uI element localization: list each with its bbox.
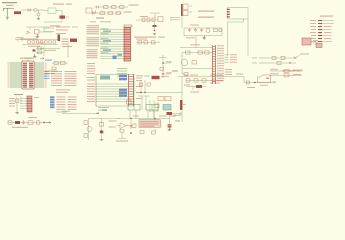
resistor R14 <box>205 51 210 54</box>
wire <box>36 46 44 56</box>
ground <box>203 36 207 40</box>
label blue <box>45 60 52 61</box>
transistor circuit: wire vertical <box>88 119 90 141</box>
part dark blob <box>152 76 160 79</box>
wire row <box>52 62 68 64</box>
wire right of blob <box>172 113 180 115</box>
wires down from boxes <box>130 110 154 119</box>
green net label row 2 <box>98 109 107 111</box>
resistor R19 <box>84 134 87 138</box>
wire net 1 <box>266 55 300 58</box>
resistor R6 <box>152 18 155 22</box>
connector J4 outline <box>228 8 249 20</box>
diode D6 <box>153 25 157 27</box>
transistor Q2 <box>206 29 210 33</box>
resistor R4 <box>108 12 113 15</box>
resistor R12 <box>186 51 191 54</box>
junction dots on rail <box>130 118 131 119</box>
resistor R22 <box>140 131 144 134</box>
resistor R21 <box>132 124 136 127</box>
tiny label above <box>236 74 243 75</box>
pin wires left <box>20 99 27 109</box>
IC pad column right <box>29 62 33 87</box>
resistor R15 <box>16 99 19 102</box>
ground GND1 <box>6 17 9 19</box>
label net3 left <box>270 69 278 70</box>
wire top rail <box>184 27 222 29</box>
junction dots <box>140 92 141 93</box>
part box 2 <box>28 121 33 124</box>
label red 2 <box>66 4 72 5</box>
box outline raised <box>258 75 271 83</box>
cap labels above <box>16 37 24 38</box>
junction dot <box>154 30 156 32</box>
net flag row 1 <box>252 57 266 60</box>
wire net <box>44 11 62 23</box>
ground right <box>168 128 172 131</box>
resistor R26 <box>277 61 281 64</box>
wire L path outer <box>228 19 249 56</box>
U4 body edge <box>213 45 216 84</box>
wire reg out <box>39 27 52 32</box>
capacitor C5c <box>53 41 56 44</box>
part box 1 <box>8 121 12 124</box>
wire to box <box>65 16 69 18</box>
label chain1 <box>129 5 139 6</box>
wire bottom rail <box>184 28 222 36</box>
net flag right 2 <box>172 19 180 21</box>
dark tick bottom left <box>266 78 269 79</box>
U1 body hatched <box>124 28 131 62</box>
right pin rows green <box>34 63 44 87</box>
wire rail 1 <box>180 47 212 49</box>
label under rail <box>44 50 56 51</box>
label rows right <box>109 121 117 128</box>
part dark blob right <box>167 112 173 115</box>
label below red <box>12 127 28 128</box>
wire vertical <box>67 43 69 59</box>
connector J3 box 1 <box>183 4 188 9</box>
junction dot <box>43 122 45 124</box>
wire from caps down <box>195 36 197 48</box>
IC pad column left <box>23 62 27 87</box>
green label <box>144 76 150 77</box>
wires vertical <box>141 80 145 93</box>
long red label row <box>134 37 156 38</box>
wire rail 3 <box>182 53 212 69</box>
resistor R20 red <box>15 121 20 124</box>
part marks <box>37 121 40 124</box>
transistor Q4 <box>87 127 92 132</box>
label small <box>190 25 199 26</box>
label above <box>28 117 37 118</box>
title text top-left <box>2 2 17 3</box>
label below red1 <box>90 21 96 22</box>
wire rail y27 <box>26 27 50 30</box>
part dark <box>100 131 104 134</box>
pin labels gap rows <box>87 63 95 74</box>
teal mark near body <box>118 54 123 57</box>
resistor R18 <box>84 121 87 125</box>
capacitor C5 <box>45 41 48 44</box>
wire net 2 <box>266 62 296 64</box>
label rows bottom <box>45 71 57 72</box>
ground <box>33 54 37 58</box>
module box <box>302 38 311 45</box>
wire row 3 <box>186 86 206 88</box>
wire down <box>154 22 156 30</box>
small marks below opamp <box>120 130 124 133</box>
teal blobs top <box>100 76 110 80</box>
label chain2 <box>124 12 132 13</box>
transistor Q1 <box>37 13 40 16</box>
wires vertical low <box>138 96 150 110</box>
resistor R28 <box>284 74 289 77</box>
capacitor C7 <box>147 18 150 22</box>
small parts below <box>52 67 56 70</box>
blue pin boxes top <box>119 75 127 81</box>
resistor R24 <box>272 56 276 59</box>
IC body outline <box>22 61 34 89</box>
capacitor C12 <box>38 51 42 54</box>
wire stubs lower <box>44 28 54 32</box>
resistor R11 <box>160 67 164 70</box>
junction dot <box>162 62 164 64</box>
U1 pin labels block 2 <box>87 37 100 46</box>
label VIN red <box>6 5 14 6</box>
junction dot q <box>289 62 290 63</box>
label top <box>320 16 333 17</box>
diode D5 <box>93 10 96 14</box>
ladder wires <box>149 100 159 119</box>
green label right <box>34 97 39 98</box>
top stub wire <box>24 59 32 62</box>
capacitor C5b <box>49 41 52 44</box>
labels above rail <box>133 116 176 117</box>
label below <box>190 92 199 93</box>
diode D2 <box>27 31 30 34</box>
branch label 2 <box>166 72 172 73</box>
label bottom left <box>116 141 128 142</box>
resistor R2 <box>112 6 117 9</box>
diode D7 <box>196 85 202 88</box>
pin labels left <box>310 20 316 42</box>
U1 pin labels block 1 <box>87 25 100 34</box>
part red blob <box>70 39 77 43</box>
label left low <box>247 87 255 88</box>
resistor R27 <box>284 69 289 72</box>
resistor R8 <box>54 62 59 65</box>
wire input left vertical <box>4 8 15 17</box>
wire top stub <box>150 13 160 18</box>
wire lower rail <box>40 47 60 49</box>
resistor R13 <box>198 51 203 54</box>
wire chain2 <box>92 12 122 14</box>
ground T <box>16 113 19 114</box>
fuse F1 <box>14 11 21 14</box>
capacitor C11 <box>38 47 42 50</box>
net flag top right <box>40 58 44 60</box>
red label rows mid <box>56 89 70 93</box>
U4 pin labels right <box>217 45 224 81</box>
ground GND2 <box>37 19 40 20</box>
end cross <box>274 81 276 83</box>
blue mark near body <box>113 56 117 60</box>
tiny label <box>175 120 180 123</box>
green label <box>158 37 165 38</box>
capacitor C14 <box>144 41 148 44</box>
resistor R25 <box>281 56 285 59</box>
wire drop from rail <box>244 77 274 83</box>
label rows lower <box>56 27 78 35</box>
wire Q1 <box>38 10 40 19</box>
wire vertical <box>159 55 171 78</box>
wire chain1 <box>94 6 128 8</box>
long wire horizontal <box>136 92 182 94</box>
label above rail <box>190 44 200 45</box>
label red VCC5V <box>53 4 64 5</box>
wire left vertical <box>95 76 97 106</box>
vertical red bar <box>180 100 182 110</box>
labels mid rows <box>62 39 69 40</box>
wire opamp <box>117 125 132 127</box>
module hatched pink big <box>139 120 161 128</box>
U1 top outline <box>124 25 132 27</box>
crystal oscillator Y2 <box>181 59 187 65</box>
capacitor C20 <box>97 6 99 9</box>
branch label 1 <box>166 61 172 62</box>
label rows <box>20 39 38 40</box>
blue pin boxes mid <box>119 89 127 97</box>
small part <box>219 29 222 32</box>
label <box>136 75 143 76</box>
wire stub mid module <box>154 119 156 132</box>
connector J2 outline <box>48 8 56 13</box>
small comp on wire <box>247 81 250 84</box>
green label left of wire <box>62 111 70 112</box>
blue box column <box>50 96 55 108</box>
wire down left <box>118 132 126 139</box>
label low <box>190 75 198 76</box>
label net3 <box>293 70 303 71</box>
ground GND3 <box>36 34 40 38</box>
box outline top 2 <box>146 105 158 111</box>
dot mid <box>130 132 132 134</box>
U1 pin labels block 3 <box>87 49 98 58</box>
U2 frame <box>96 75 134 107</box>
junction dot 2 <box>162 73 164 75</box>
net flag row 2 <box>252 62 266 65</box>
label right <box>173 115 181 116</box>
red label grid B <box>57 97 77 111</box>
green label bottom <box>98 107 109 108</box>
connector J3 body bar <box>181 4 183 16</box>
pin stubs <box>189 6 192 12</box>
ground mark <box>153 34 156 35</box>
label above <box>20 58 34 59</box>
box outline <box>158 17 163 22</box>
label top right <box>300 54 309 55</box>
red label grid A <box>51 71 77 86</box>
box on ladder <box>155 104 159 108</box>
wire rail 2 <box>182 52 212 54</box>
capacitor C15 <box>192 61 197 64</box>
capacitor C6 <box>142 18 145 22</box>
U2 body edge <box>129 74 134 106</box>
label <box>14 94 23 95</box>
box small left <box>127 100 132 104</box>
capacitor C9 <box>194 28 197 32</box>
green label bottom <box>56 112 67 113</box>
crystal Y1 <box>33 50 36 52</box>
main rail <box>118 118 170 120</box>
U1 pin wires <box>100 30 124 59</box>
capacitor C13 <box>138 41 142 44</box>
label below red2 <box>100 21 111 22</box>
opamp triangle <box>120 123 126 129</box>
label under rail <box>186 37 195 38</box>
capacitor C8 <box>188 28 191 32</box>
right branch down <box>169 115 171 124</box>
diode D3 <box>60 16 66 19</box>
capacitor C1 <box>28 41 31 44</box>
capacitor C17 <box>22 120 25 125</box>
resistor R7 <box>214 29 218 32</box>
wire end tick <box>97 113 100 114</box>
inductor L2 <box>104 6 109 9</box>
wire net 3 <box>270 70 302 72</box>
long vertical wire left <box>181 77 183 123</box>
resistor R23 <box>152 131 156 134</box>
wire rail 2 <box>186 80 210 82</box>
connector body red hatched <box>27 96 32 112</box>
cap to ground mid <box>130 119 132 125</box>
U2 left labels red <box>87 77 95 102</box>
capacitor C10 <box>200 28 203 32</box>
label row1 <box>198 11 214 12</box>
label net4 right <box>293 74 301 75</box>
wire fuse to diode <box>21 9 28 11</box>
capacitor C2 <box>32 41 35 44</box>
left pin rows green <box>10 63 22 87</box>
resistor R3 <box>120 6 125 9</box>
resistor R9 <box>61 62 66 65</box>
part box 2 <box>194 79 198 82</box>
module hatched blue <box>163 105 171 111</box>
right pin number ticks <box>45 63 47 88</box>
long net wire <box>62 113 99 115</box>
resistor R17 <box>147 83 150 86</box>
box outline right <box>86 8 92 13</box>
U2 pin wires <box>96 84 128 102</box>
label net4 left <box>270 73 279 74</box>
net arrow <box>46 121 51 123</box>
labels right of body <box>136 78 142 100</box>
ferrite bead L1 <box>34 9 37 11</box>
pin value labels right <box>324 26 331 27</box>
capacitor C4 <box>40 41 43 44</box>
polarized cap C19 <box>168 124 172 125</box>
small marks <box>184 75 189 76</box>
wire diode to bead <box>31 9 45 11</box>
label right of blob <box>161 76 169 77</box>
cap bank label <box>28 46 40 47</box>
blue labels col <box>44 71 50 79</box>
connector footprint box <box>316 44 322 48</box>
label <box>136 39 147 40</box>
part box 3 <box>202 79 206 82</box>
capacitor bank rails <box>15 40 58 45</box>
label row2 <box>198 17 214 18</box>
tick end <box>180 113 182 115</box>
wire stub down <box>192 87 194 91</box>
capacitor C18 <box>130 126 133 129</box>
capacitor C3 <box>36 41 39 44</box>
green marks <box>313 40 318 41</box>
vertical wires <box>17 97 21 113</box>
resistor R16 <box>139 83 142 86</box>
part red bar vertical <box>58 35 61 42</box>
right branch wire <box>89 119 121 140</box>
second supply label <box>50 25 60 26</box>
resistor R10 <box>152 41 156 44</box>
box outline 2 <box>165 97 171 101</box>
connector pins red <box>227 9 230 10</box>
wire low stub <box>182 69 184 75</box>
diode D1 <box>28 9 31 11</box>
label below box <box>260 85 268 86</box>
inductor L3 <box>100 12 105 15</box>
regulator U5 <box>35 30 40 35</box>
label <box>140 16 148 17</box>
top right label row <box>282 70 301 71</box>
ground <box>100 140 104 141</box>
labels right rows <box>210 75 223 84</box>
label below dark <box>96 18 104 19</box>
wire rail top <box>178 76 244 78</box>
net label teal blobs <box>103 31 111 52</box>
cross mark <box>294 56 297 59</box>
part box low <box>184 73 188 76</box>
pin wires right <box>322 21 334 42</box>
net labels left col (x224) <box>225 54 238 75</box>
wire rail <box>8 122 50 124</box>
net label green texts <box>101 28 109 53</box>
wire row <box>136 19 158 21</box>
connector J5 pin column <box>318 20 322 42</box>
junction dot <box>254 82 256 84</box>
box outline top 1 <box>128 105 140 111</box>
net flag right 1 <box>172 17 180 19</box>
connector J3 box 2 <box>183 10 188 15</box>
wire <box>136 42 160 44</box>
bar foot tick <box>183 104 186 105</box>
resistor R5 <box>116 12 121 15</box>
wire net 4 <box>270 75 302 77</box>
green labels lower right <box>117 68 127 77</box>
capacitor C16 <box>100 123 104 127</box>
box outline 1 <box>158 97 164 101</box>
pin labels <box>9 98 15 107</box>
wire down from connector <box>181 16 183 28</box>
part box 1 <box>186 79 190 82</box>
left pin number ticks <box>8 63 10 88</box>
